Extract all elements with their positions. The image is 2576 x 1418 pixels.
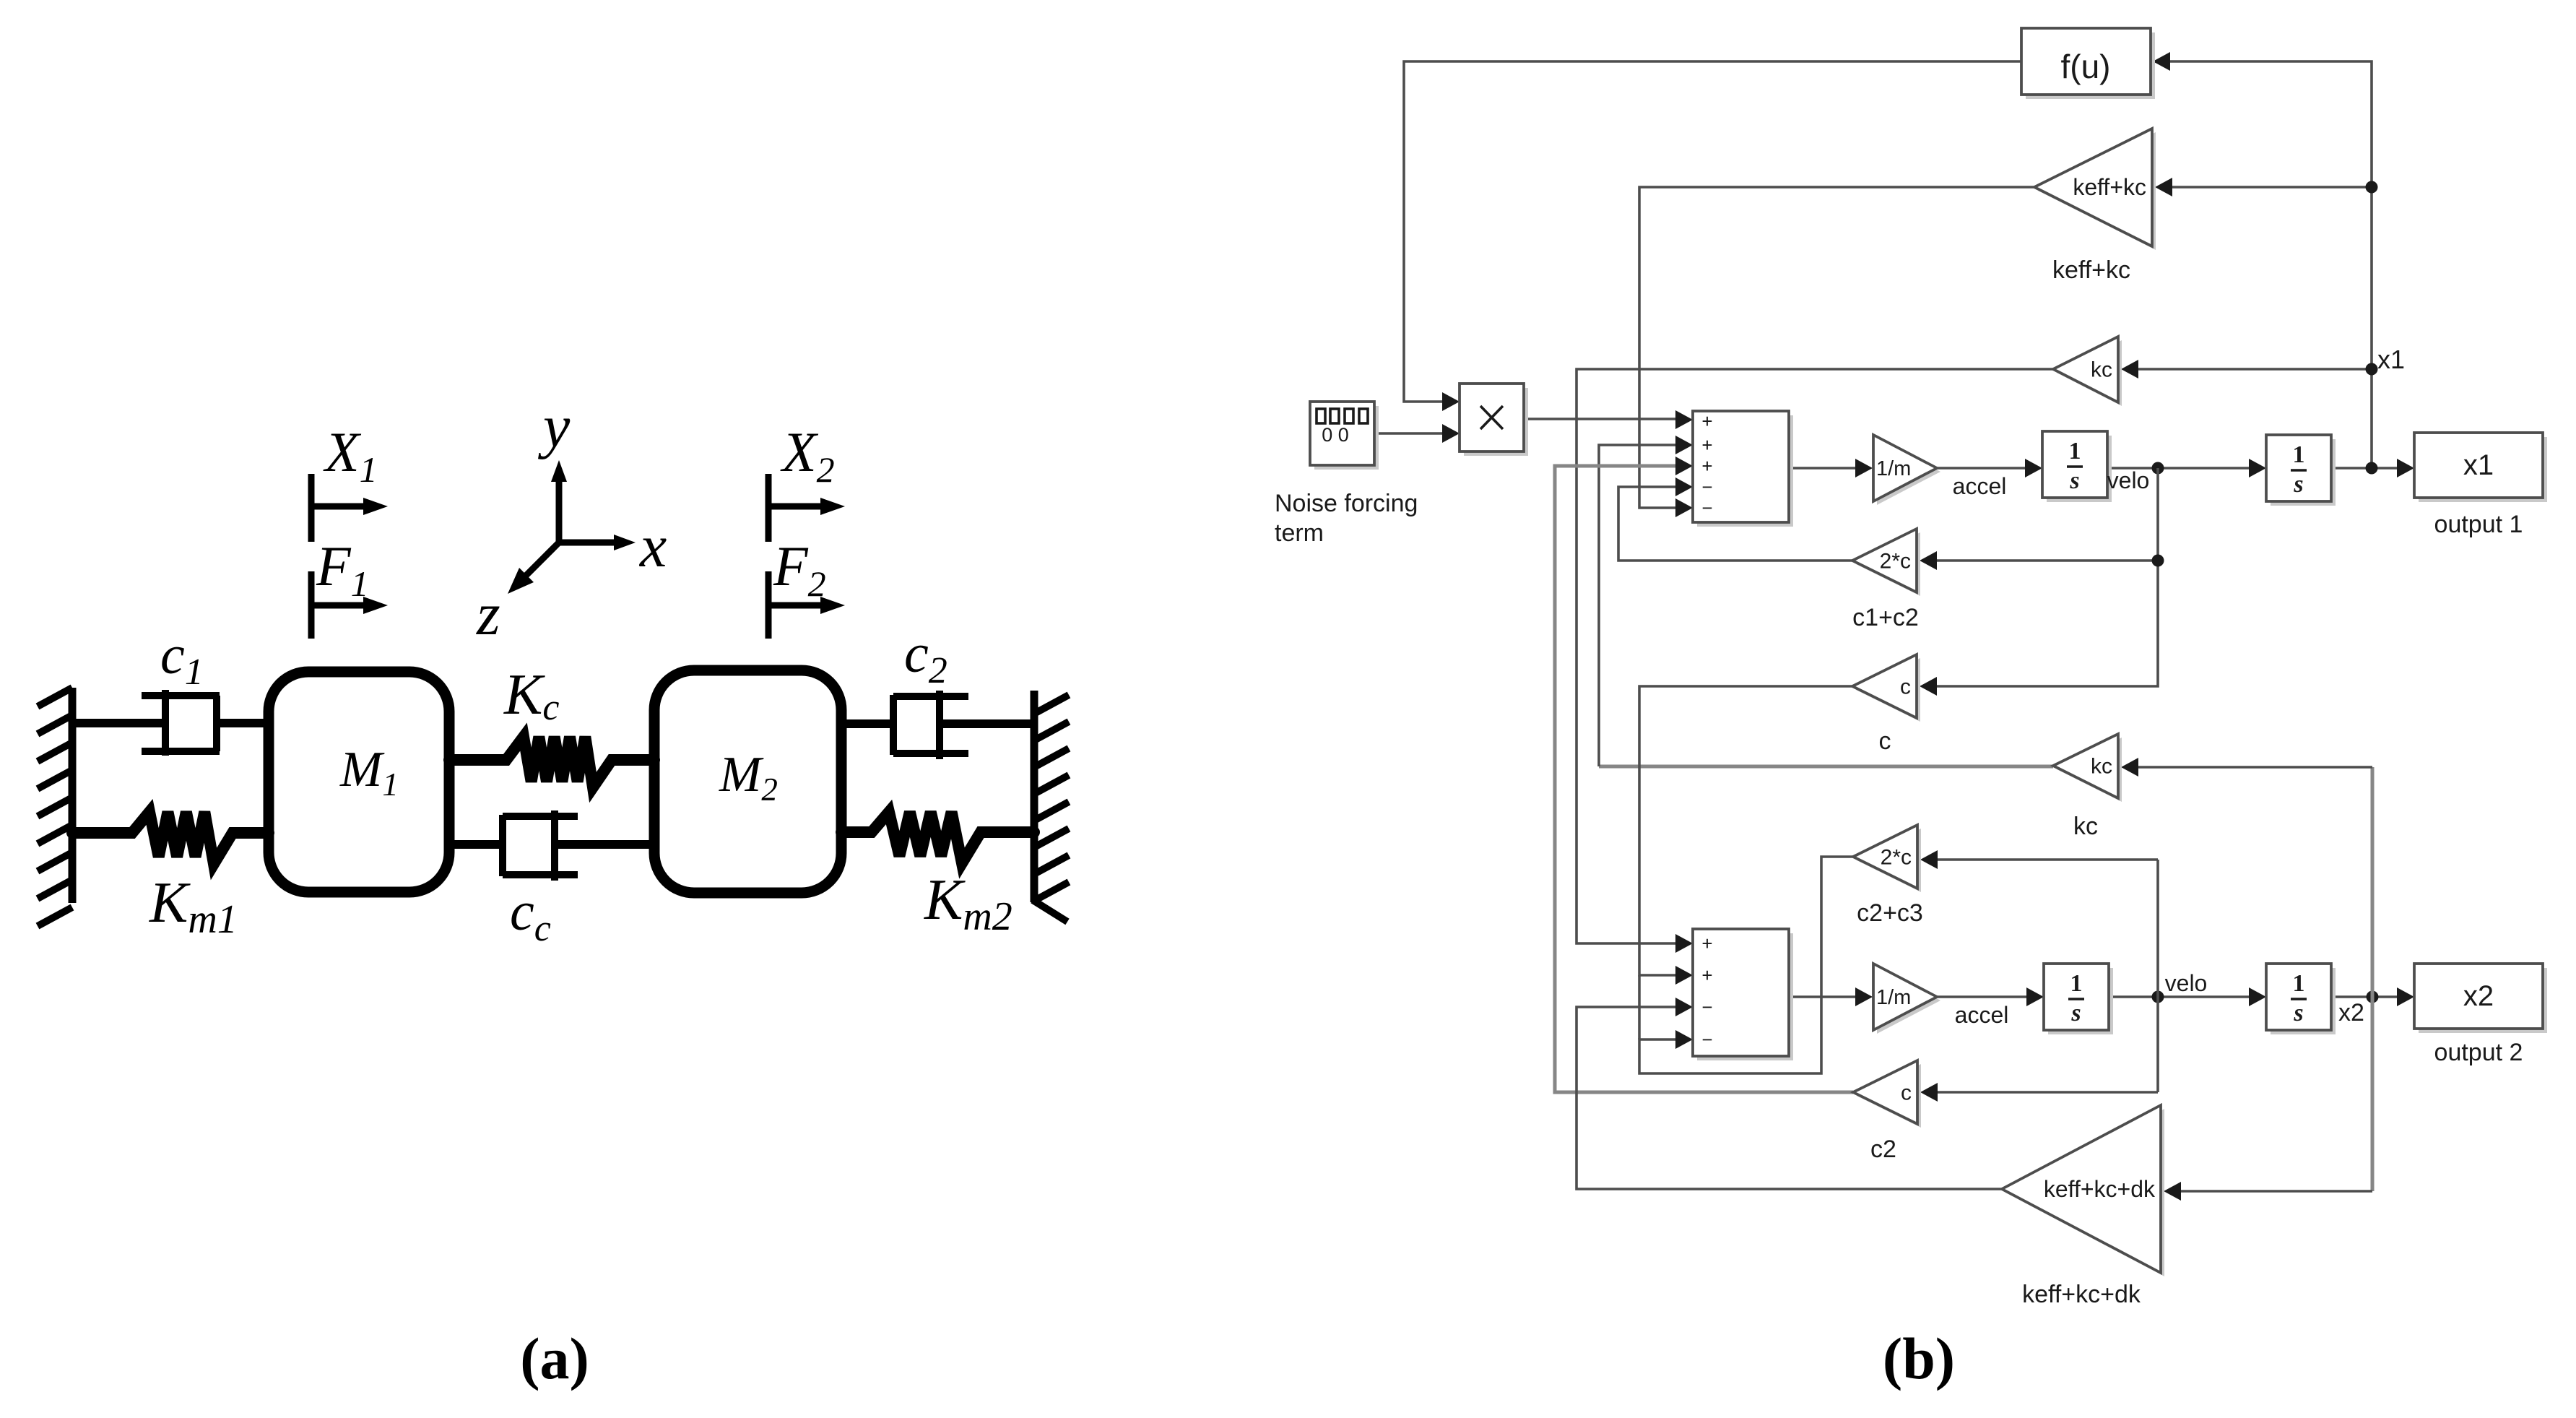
svg-text:accel: accel xyxy=(1953,473,2007,499)
svg-text:1/m: 1/m xyxy=(1876,457,1911,480)
svg-text:−: − xyxy=(1701,1029,1712,1050)
svg-text:accel: accel xyxy=(1955,1002,2009,1028)
svg-text:Noise forcing: Noise forcing xyxy=(1275,490,1418,517)
svg-text:1/m: 1/m xyxy=(1876,986,1911,1009)
svg-text:−: − xyxy=(1701,497,1712,519)
svg-text:−: − xyxy=(1701,476,1712,498)
svg-text:keff+kc+dk: keff+kc+dk xyxy=(2022,1281,2141,1308)
svg-text:2*c: 2*c xyxy=(1881,846,1912,870)
svg-text:c: c xyxy=(1901,1081,1912,1105)
svg-text:−: − xyxy=(1701,996,1712,1018)
svg-text:1: 1 xyxy=(2069,438,2081,464)
svg-text:+: + xyxy=(1701,964,1712,986)
svg-text:c2+c3: c2+c3 xyxy=(1857,899,1923,927)
svg-text:x1: x1 xyxy=(2377,345,2405,374)
svg-text:keff+kc: keff+kc xyxy=(2052,256,2130,284)
svg-text:1: 1 xyxy=(2293,970,2305,997)
svg-text:z: z xyxy=(476,581,500,648)
svg-text:+: + xyxy=(1701,410,1712,432)
svg-text:+: + xyxy=(1701,434,1712,456)
svg-text:s: s xyxy=(2293,1000,2303,1026)
svg-text:velo: velo xyxy=(2107,467,2150,493)
svg-text:+: + xyxy=(1701,933,1712,954)
svg-text:term: term xyxy=(1275,519,1324,547)
svg-text:1: 1 xyxy=(2293,441,2305,468)
svg-text:x1: x1 xyxy=(2463,449,2494,481)
svg-text:velo: velo xyxy=(2165,970,2208,996)
svg-text:1: 1 xyxy=(2070,970,2083,997)
svg-text:s: s xyxy=(2069,467,2079,494)
svg-text:x: x xyxy=(638,513,667,580)
svg-text:c: c xyxy=(1879,727,1891,755)
svg-text:s: s xyxy=(2293,471,2303,498)
svg-text:kc: kc xyxy=(2073,813,2098,840)
svg-text:output 2: output 2 xyxy=(2434,1039,2523,1066)
svg-text:0 0: 0 0 xyxy=(1322,424,1349,446)
svg-text:x2: x2 xyxy=(2338,999,2364,1026)
svg-text:c2: c2 xyxy=(1870,1136,1896,1163)
svg-text:x2: x2 xyxy=(2463,980,2494,1012)
svg-text:2*c: 2*c xyxy=(1880,550,1911,574)
svg-text:(b): (b) xyxy=(1883,1326,1955,1391)
svg-text:+: + xyxy=(1701,455,1712,477)
svg-text:keff+kc+dk: keff+kc+dk xyxy=(2044,1176,2156,1202)
svg-text:keff+kc: keff+kc xyxy=(2073,174,2146,200)
svg-text:c: c xyxy=(1900,675,1911,699)
svg-text:c1+c2: c1+c2 xyxy=(1852,604,1919,631)
svg-text:f(u): f(u) xyxy=(2061,48,2111,85)
svg-text:output 1: output 1 xyxy=(2434,511,2523,538)
svg-text:s: s xyxy=(2070,1000,2081,1026)
svg-text:kc: kc xyxy=(2091,358,2112,382)
svg-text:(a): (a) xyxy=(520,1326,589,1391)
svg-text:kc: kc xyxy=(2091,755,2112,779)
